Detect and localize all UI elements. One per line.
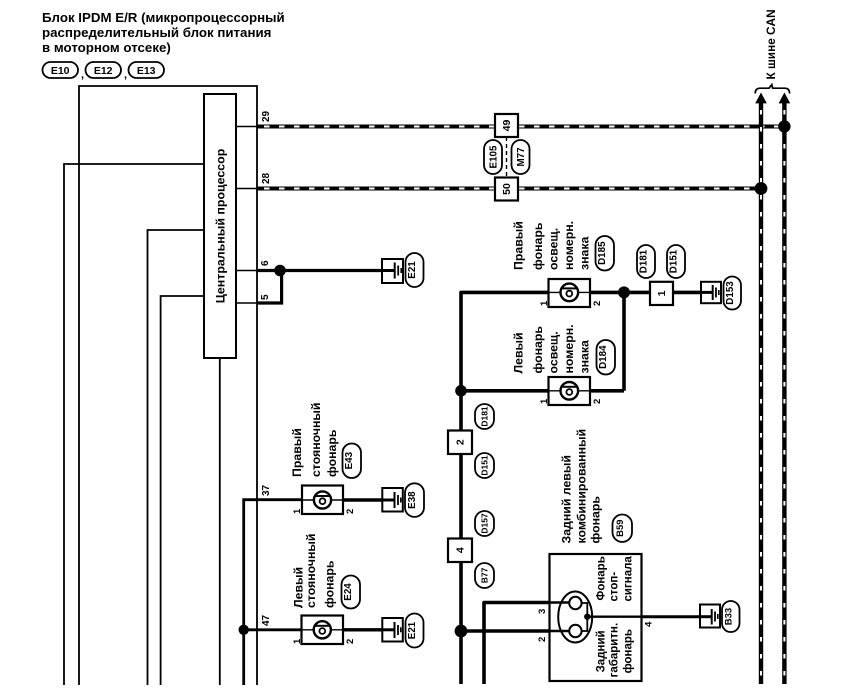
- svg-text:в моторном отсеке): в моторном отсеке): [42, 40, 171, 55]
- svg-text:2: 2: [455, 439, 467, 445]
- svg-text:К шине CAN: К шине CAN: [764, 9, 778, 79]
- svg-text:47: 47: [261, 614, 272, 626]
- svg-text:фонарь: фонарь: [622, 629, 634, 673]
- svg-text:28: 28: [261, 172, 272, 184]
- svg-text:D151: D151: [669, 249, 680, 273]
- svg-text:E105: E105: [489, 145, 500, 168]
- svg-text:габаритн.: габаритн.: [609, 623, 621, 678]
- svg-text:Центральный процессор: Центральный процессор: [214, 148, 228, 303]
- svg-text:D185: D185: [597, 241, 608, 265]
- svg-text:фонарь: фонарь: [323, 560, 337, 608]
- svg-text:знака: знака: [577, 340, 591, 374]
- svg-text:E21: E21: [407, 621, 418, 639]
- svg-text:Фонарь: Фонарь: [596, 556, 608, 600]
- svg-text:B33: B33: [723, 608, 734, 625]
- svg-text:D181: D181: [480, 406, 490, 427]
- svg-text:D181: D181: [639, 249, 650, 273]
- svg-text:стояночный: стояночный: [304, 534, 318, 608]
- svg-text:Задний левый: Задний левый: [559, 455, 573, 543]
- svg-text:номерн.: номерн.: [562, 324, 576, 373]
- svg-text:D153: D153: [725, 281, 736, 305]
- svg-text:Правый: Правый: [512, 221, 526, 270]
- svg-text:1: 1: [539, 398, 550, 404]
- svg-text:фонарь: фонарь: [531, 326, 545, 374]
- svg-text:номерн.: номерн.: [562, 221, 576, 270]
- svg-text:2: 2: [345, 509, 356, 514]
- svg-text:фонарь: фонарь: [588, 496, 602, 544]
- svg-text:E10: E10: [51, 65, 70, 77]
- svg-text:M77: M77: [516, 147, 527, 167]
- svg-text:B77: B77: [480, 567, 490, 583]
- svg-text:сигнала: сигнала: [622, 556, 634, 602]
- svg-text:E43: E43: [344, 451, 355, 469]
- svg-text:D184: D184: [598, 345, 609, 369]
- svg-text:стоп-: стоп-: [609, 572, 621, 602]
- svg-text:E38: E38: [407, 491, 418, 509]
- svg-text:стояночный: стояночный: [309, 403, 323, 477]
- svg-text:29: 29: [261, 110, 272, 122]
- svg-text:49: 49: [501, 120, 513, 132]
- svg-text:E13: E13: [137, 65, 156, 77]
- svg-text:Левый: Левый: [512, 332, 526, 373]
- svg-text:1: 1: [292, 508, 303, 514]
- svg-text:Блок IPDM E/R (микропроцессорн: Блок IPDM E/R (микропроцессорный: [42, 10, 285, 25]
- svg-text:3: 3: [537, 609, 548, 614]
- svg-text:распределительный блок питания: распределительный блок питания: [42, 25, 271, 40]
- svg-text:,: ,: [81, 69, 84, 81]
- svg-text:1: 1: [292, 638, 303, 644]
- svg-text:комбинированный: комбинированный: [575, 429, 589, 544]
- svg-text:2: 2: [345, 639, 356, 644]
- svg-text:,: ,: [124, 69, 127, 81]
- svg-text:фонарь: фонарь: [325, 429, 339, 477]
- svg-text:D151: D151: [480, 455, 490, 476]
- svg-text:50: 50: [501, 183, 513, 195]
- svg-text:Правый: Правый: [290, 428, 304, 477]
- svg-text:освещ.: освещ.: [546, 331, 560, 373]
- svg-text:освещ.: освещ.: [546, 228, 560, 270]
- svg-text:4: 4: [455, 547, 467, 553]
- svg-text:E21: E21: [407, 261, 418, 279]
- svg-text:фонарь: фонарь: [531, 222, 545, 270]
- svg-text:4: 4: [644, 621, 655, 627]
- svg-text:1: 1: [656, 290, 668, 296]
- svg-text:D157: D157: [480, 513, 490, 534]
- svg-text:E24: E24: [343, 583, 354, 601]
- svg-text:1: 1: [539, 300, 550, 306]
- svg-text:знака: знака: [577, 236, 591, 270]
- svg-text:5: 5: [260, 294, 271, 300]
- svg-text:2: 2: [592, 399, 603, 404]
- svg-text:E12: E12: [94, 65, 113, 77]
- svg-text:37: 37: [261, 484, 272, 496]
- svg-text:B59: B59: [615, 519, 626, 536]
- svg-text:6: 6: [260, 260, 271, 266]
- svg-text:2: 2: [592, 301, 603, 306]
- svg-text:Задний: Задний: [596, 630, 608, 672]
- svg-text:2: 2: [537, 637, 548, 642]
